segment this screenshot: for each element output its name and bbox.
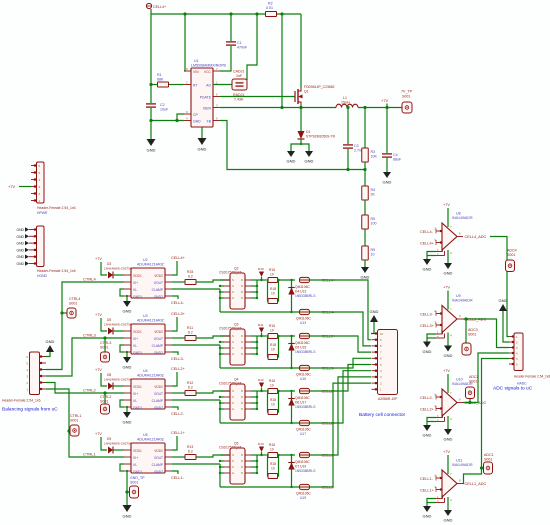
svg-text:VOUT: VOUT xyxy=(154,456,163,460)
wire CELL1- to battery connector xyxy=(310,383,372,487)
svg-text:VI-: VI- xyxy=(133,344,137,348)
svg-text:ADC1: ADC1 xyxy=(484,453,494,457)
svg-text:CELL1-: CELL1- xyxy=(171,476,185,480)
resistor R9 10 divider xyxy=(364,229,366,246)
svg-text:S001: S001 xyxy=(484,458,492,462)
svg-text:R18: R18 xyxy=(270,287,276,291)
svg-text:FB: FB xyxy=(207,120,212,124)
op-amp U4 ADUM4121ARIZ gate driver xyxy=(131,379,165,409)
wire CP-GND loop xyxy=(177,114,184,121)
U5 pin VI- xyxy=(124,463,131,465)
U10 output pin 6 xyxy=(457,402,463,404)
svg-text:10: 10 xyxy=(380,332,384,336)
Q2 right pin 5 xyxy=(245,297,251,299)
wire block right bus xyxy=(251,335,257,337)
svg-text:1N4148WS-C92756: 1N4148WS-C92756 xyxy=(104,267,132,271)
node CELL1+ flag at driver xyxy=(172,436,177,450)
svg-text:VDD2: VDD2 xyxy=(154,449,163,453)
op-amp U9 INA149AIDR difference amplifier xyxy=(442,306,457,333)
Q2 right pin 8 xyxy=(245,279,251,281)
connector HCTRL Header-Female 2.54_1x6 balancing input xyxy=(30,352,40,395)
U1 pin PGATE xyxy=(213,96,220,98)
svg-text:2K: 2K xyxy=(371,193,376,197)
U4 pin VI+ xyxy=(124,392,131,394)
svg-text:S: S xyxy=(232,278,234,282)
capacitor C2 10uF input cap xyxy=(146,103,156,105)
resistor R15 6.2 gate resistor xyxy=(172,281,185,283)
resistor R1 68K to RT pin xyxy=(151,84,157,86)
connector 7V TP test point xyxy=(402,102,412,113)
svg-text:L1: L1 xyxy=(343,96,347,100)
wire GND2 to cell- flag xyxy=(172,407,178,410)
svg-text:+7V: +7V xyxy=(95,313,102,317)
U5 pin VDD2 xyxy=(165,449,172,451)
svg-text:GND: GND xyxy=(383,180,392,185)
node switch node junction xyxy=(300,105,302,108)
Q3 left pin 1 xyxy=(224,335,230,337)
junction dots on VIN rail xyxy=(183,12,186,15)
capacitor C3 2.7nF xyxy=(347,108,349,145)
fuse U12 cell+ line xyxy=(300,277,310,282)
svg-text:QM1106C: QM1106C xyxy=(295,341,310,345)
Q4 left pin 1 xyxy=(224,390,230,392)
resistor R3 10K xyxy=(364,108,366,149)
wire top VIN rail xyxy=(151,13,266,15)
svg-text:C4: C4 xyxy=(393,153,398,157)
Q3 right pin 7 xyxy=(245,341,251,343)
svg-text:C2: C2 xyxy=(160,103,165,107)
ground D1 right xyxy=(305,151,313,157)
U3 pin VDD2 xyxy=(165,330,172,332)
svg-text:R4: R4 xyxy=(371,188,376,192)
svg-text:CELL4+: CELL4+ xyxy=(420,242,435,246)
svg-text:VCC: VCC xyxy=(204,70,212,74)
U11 input pin 2 CELL1- xyxy=(436,477,442,479)
wire cell+ line from bus xyxy=(257,390,266,392)
svg-text:GND_TP: GND_TP xyxy=(130,476,145,480)
ground HGND pin 4 xyxy=(25,241,29,245)
svg-text:CLAMP: CLAMP xyxy=(152,463,164,467)
wire ISEN to switch node xyxy=(220,107,301,109)
svg-text:A2086R-10P: A2086R-10P xyxy=(378,397,398,401)
svg-text:CELL2-: CELL2- xyxy=(171,412,185,416)
svg-text:R2: R2 xyxy=(268,2,273,6)
svg-text:D: D xyxy=(241,346,243,350)
svg-text:10K: 10K xyxy=(371,155,378,159)
svg-text:GND: GND xyxy=(123,514,132,519)
Q2 left pin 3 xyxy=(224,291,230,293)
svg-text:10: 10 xyxy=(270,384,274,388)
U8 input pin 2 CELL4- xyxy=(436,230,442,232)
Q5 right pin 7 xyxy=(245,460,251,462)
svg-text:S001: S001 xyxy=(469,380,477,384)
diode D5 1N4148WS xyxy=(108,328,113,335)
ground under driver U3 xyxy=(126,352,128,357)
svg-text:S001: S001 xyxy=(100,400,108,404)
U2 pin VDD1 xyxy=(124,274,131,276)
Q4 left pin 4 xyxy=(224,408,230,410)
wire VIN drop to C2/R1 column xyxy=(150,14,152,103)
wire GND2 to cell- flag xyxy=(172,296,178,299)
connector HGND Header-Female 2.54_1x6 xyxy=(37,226,45,267)
svg-text:G: G xyxy=(232,471,234,475)
U1 pin AO xyxy=(213,84,220,86)
op-amp U11 INA149AIDR difference amplifier xyxy=(442,470,457,497)
connector A2086R-10P battery cell connector xyxy=(378,330,398,395)
U11 reference pins 1 5 loop xyxy=(436,498,443,500)
wire VOUT to block xyxy=(196,280,230,282)
svg-text:6.2: 6.2 xyxy=(188,331,193,335)
svg-text:10: 10 xyxy=(271,467,275,471)
U4 pin VOUT xyxy=(165,392,172,394)
svg-text:S001: S001 xyxy=(69,302,77,306)
wire +7V output rail xyxy=(358,107,403,109)
connector HADC Header-Female 2.54_1x6 ADC output xyxy=(514,333,523,371)
svg-text:1nF: 1nF xyxy=(236,74,243,78)
diode D12 small gate diode xyxy=(261,388,263,391)
svg-text:GND1: GND1 xyxy=(133,295,142,299)
svg-text:ADC3: ADC3 xyxy=(468,328,478,332)
wire cell+ line from bus xyxy=(257,279,266,281)
Q3 right pin 8 xyxy=(245,335,251,337)
wire CTRL4 route from header xyxy=(46,282,124,370)
svg-text:HADC: HADC xyxy=(517,382,527,386)
svg-text:GND2: GND2 xyxy=(154,470,163,474)
resistor R16 10 series xyxy=(268,389,278,394)
svg-text:GND: GND xyxy=(423,514,432,519)
svg-text:CELL3-: CELL3- xyxy=(420,313,434,317)
Q2 left pin 1 xyxy=(224,279,230,281)
svg-text:QM1106C: QM1106C xyxy=(295,460,310,464)
svg-text:CELL1-: CELL1- xyxy=(420,477,434,481)
svg-text:10: 10 xyxy=(270,273,274,277)
ground reference pins xyxy=(423,506,431,512)
U3 pin VDD1 xyxy=(124,330,131,332)
svg-text:R11: R11 xyxy=(187,326,193,330)
svg-text:15uH: 15uH xyxy=(341,101,350,105)
U8 output pin 6 xyxy=(457,236,463,238)
svg-text:GND: GND xyxy=(423,267,432,272)
U1 pin ISEN xyxy=(213,107,220,109)
svg-text:D: D xyxy=(241,290,243,294)
U10 input pin 3 CELL2+ xyxy=(436,408,442,410)
svg-text:10uF: 10uF xyxy=(160,108,169,112)
svg-text:+7V: +7V xyxy=(443,369,450,373)
svg-text:CP: CP xyxy=(193,113,198,117)
svg-text:AO: AO xyxy=(206,84,211,88)
svg-text:Balancing signals from uC: Balancing signals from uC xyxy=(2,407,58,413)
Q2 right pin 7 xyxy=(245,285,251,287)
resistor R13 6.2 gate resistor xyxy=(172,456,185,458)
svg-text:HGND: HGND xyxy=(37,274,48,278)
op-amp U10 INA149AIDR difference amplifier xyxy=(442,389,457,416)
svg-text:GND: GND xyxy=(16,248,24,252)
fuse U17 cell- line xyxy=(220,422,300,424)
op-amp U5 ADUM4121ARIZ gate driver xyxy=(131,443,165,473)
svg-text:GND: GND xyxy=(16,255,24,259)
inductor L1 15uH xyxy=(336,104,358,107)
Q3 left pin 3 xyxy=(224,347,230,349)
wire clamp bus left of block xyxy=(219,400,221,423)
svg-text:QM1106C: QM1106C xyxy=(296,428,311,432)
wire FB feedback line xyxy=(220,121,365,170)
node CELL2+ flag at driver xyxy=(172,372,177,386)
svg-text:CTRL3: CTRL3 xyxy=(100,341,111,345)
svg-text:1N4148WS-C92756: 1N4148WS-C92756 xyxy=(104,442,132,446)
svg-text:D9: D9 xyxy=(107,437,111,441)
svg-text:Header-Female 2.54_1x6: Header-Female 2.54_1x6 xyxy=(514,375,550,379)
Q5 left pin 1 xyxy=(224,454,230,456)
svg-text:D: D xyxy=(241,407,243,411)
svg-text:100: 100 xyxy=(371,222,377,226)
svg-text:D: D xyxy=(241,334,243,338)
ground reference pins xyxy=(423,425,431,431)
svg-text:U13: U13 xyxy=(300,321,306,325)
svg-text:U3: U3 xyxy=(143,314,148,318)
svg-text:R18: R18 xyxy=(270,343,276,347)
svg-text:ADUM4121ARIZ: ADUM4121ARIZ xyxy=(137,374,165,378)
Q3 right pin 5 xyxy=(245,353,251,355)
svg-text:10: 10 xyxy=(271,292,275,296)
svg-text:CSD17575Q3A: CSD17575Q3A xyxy=(219,327,243,331)
svg-text:GND: GND xyxy=(193,120,201,124)
capacitor C1 470nF VCC cap xyxy=(230,14,232,41)
transistor Q5 CSD17575Q3A dual MOSFET block xyxy=(230,448,245,484)
svg-text:7.43K: 7.43K xyxy=(234,98,244,102)
wire CELL3+ to battery connector xyxy=(310,336,372,352)
svg-text:ADC4: ADC4 xyxy=(507,249,517,253)
svg-text:S001: S001 xyxy=(130,481,138,485)
Q2 left pin 2 xyxy=(224,285,230,287)
wire CLAMP to block bus xyxy=(172,288,220,290)
svg-text:D6 U17: D6 U17 xyxy=(295,401,306,405)
op-amp U3 ADUM4121ARIZ gate driver xyxy=(131,324,165,354)
svg-text:INA149AIDR: INA149AIDR xyxy=(452,463,473,467)
svg-text:D: D xyxy=(241,284,243,288)
wire CELL1+ to battery connector xyxy=(310,377,372,455)
node CELL4+ power input port xyxy=(146,3,151,8)
svg-text:+7V: +7V xyxy=(443,450,450,454)
svg-text:CTRL2: CTRL2 xyxy=(100,395,111,399)
svg-text:VI+: VI+ xyxy=(133,337,138,341)
connector ADC4 test point xyxy=(506,265,507,267)
svg-text:FDD5614P_C23682: FDD5614P_C23682 xyxy=(304,85,335,89)
svg-text:S: S xyxy=(232,334,234,338)
wire CTRL3 route from header xyxy=(46,338,124,376)
wire CLAMP to block bus xyxy=(172,399,220,401)
svg-text:U19: U19 xyxy=(300,496,306,500)
Q5 right pin 6 xyxy=(245,466,251,468)
U8 input pin 3 CELL4+ xyxy=(436,242,442,244)
wire block right bus xyxy=(251,390,257,392)
Q5 right pin 8 xyxy=(245,454,251,456)
U10 input pin 2 CELL2- xyxy=(436,396,442,398)
U5 pin VDD1 xyxy=(124,449,131,451)
Q3 left pin 4 xyxy=(224,353,230,355)
svg-text:VOUT: VOUT xyxy=(154,281,163,285)
fuse U19 cell- line xyxy=(220,486,300,488)
svg-text:R5: R5 xyxy=(371,217,376,221)
svg-text:ISEN: ISEN xyxy=(203,107,211,111)
svg-text:CELL1_ADC: CELL1_ADC xyxy=(465,482,487,486)
svg-text:1N4148WS-C92756: 1N4148WS-C92756 xyxy=(104,323,132,327)
wire VOUT to block xyxy=(196,336,230,338)
svg-text:CELL4+: CELL4+ xyxy=(171,256,186,260)
svg-text:S: S xyxy=(232,340,234,344)
svg-text:CELL3-: CELL3- xyxy=(171,357,185,361)
svg-text:CTRL1: CTRL1 xyxy=(83,452,96,457)
U2 pin VI+ xyxy=(124,281,131,283)
svg-text:D12: D12 xyxy=(258,378,264,382)
svg-text:D: D xyxy=(241,453,243,457)
node CELL4+ flag at driver xyxy=(172,261,177,275)
svg-text:+7V: +7V xyxy=(443,203,450,207)
svg-text:VIN: VIN xyxy=(193,70,199,74)
wire CTRL2 route from header xyxy=(46,383,124,394)
resistor R18 10 parallel loop xyxy=(267,280,270,301)
svg-text:D5 U15: D5 U15 xyxy=(295,346,306,350)
wire clamp bus left of block xyxy=(219,464,221,487)
svg-text:D5: D5 xyxy=(107,318,111,322)
transistor Q1 FDD5614P PMOS xyxy=(294,91,296,102)
ground below divider chain xyxy=(364,260,366,267)
U5 pin GND1 xyxy=(124,470,131,472)
U3 pin GND2 xyxy=(165,351,172,353)
wire to zener and fuse xyxy=(279,390,296,392)
U1 pin FB xyxy=(213,120,220,122)
svg-text:10: 10 xyxy=(271,348,275,352)
svg-text:CELL1+: CELL1+ xyxy=(171,431,186,435)
svg-text:C3: C3 xyxy=(354,144,359,148)
wire rail branch to CADJ network xyxy=(247,14,257,80)
diode zener 1N5338BRLG xyxy=(291,391,293,423)
wire PGATE to Q1 gate xyxy=(220,96,295,98)
svg-text:U5: U5 xyxy=(143,433,148,437)
svg-text:D: D xyxy=(241,296,243,300)
op-amp U1 LM5008 regulator IC body xyxy=(191,68,213,127)
wire VI- GND1 loop xyxy=(120,400,124,407)
svg-text:STPS2M1050S-TR: STPS2M1050S-TR xyxy=(306,135,336,139)
connector ADC2 test point xyxy=(469,399,471,403)
ground below C2 xyxy=(147,139,156,146)
U3 pin GND1 xyxy=(124,351,131,353)
U10 reference pins 1 5 loop xyxy=(436,417,443,419)
svg-text:D: D xyxy=(241,465,243,469)
resistor R18 10 parallel loop xyxy=(267,336,270,357)
svg-text:GND: GND xyxy=(123,420,132,425)
U2 pin CLAMP xyxy=(165,288,172,290)
Q5 left pin 4 xyxy=(224,472,230,474)
svg-text:D: D xyxy=(241,401,243,405)
svg-text:GND: GND xyxy=(444,271,453,276)
svg-text:GND: GND xyxy=(444,353,453,358)
U8 pin 4 negative supply xyxy=(447,250,449,263)
svg-text:6.2: 6.2 xyxy=(188,386,193,390)
U1 pin RT xyxy=(184,84,191,86)
wire CELL4_ADC to HADC pin1 xyxy=(490,237,509,337)
svg-text:Header-Female 2.54_1x6: Header-Female 2.54_1x6 xyxy=(37,269,76,273)
ground HGND pin 3 xyxy=(25,248,29,252)
wire CELL2+ to battery connector xyxy=(310,365,372,392)
svg-text:R12: R12 xyxy=(187,381,193,385)
svg-text:GND2: GND2 xyxy=(154,295,163,299)
wire VI- GND1 loop xyxy=(120,289,124,296)
svg-text:VI+: VI+ xyxy=(133,392,138,396)
svg-text:GND: GND xyxy=(16,242,24,246)
svg-text:VDD1: VDD1 xyxy=(133,274,142,278)
svg-text:VDD2: VDD2 xyxy=(154,330,163,334)
connector ADC1 test point xyxy=(482,467,485,469)
wire to zener and fuse xyxy=(279,335,296,337)
svg-text:CSD17575Q3A: CSD17575Q3A xyxy=(219,446,243,450)
svg-text:S001: S001 xyxy=(100,346,108,350)
resistor R16 10 series xyxy=(268,278,278,283)
svg-text:D1: D1 xyxy=(306,130,310,134)
svg-text:68uF: 68uF xyxy=(393,158,402,162)
wire D1 anode split to grounds xyxy=(291,139,301,151)
svg-text:VDD2: VDD2 xyxy=(154,274,163,278)
wire cell+ line from bus xyxy=(257,335,266,337)
svg-text:GND: GND xyxy=(16,228,24,232)
Q2 left pin 4 xyxy=(224,297,230,299)
svg-text:GND: GND xyxy=(423,349,432,354)
U4 pin CLAMP xyxy=(165,399,172,401)
svg-text:GND: GND xyxy=(123,309,132,314)
svg-text:S: S xyxy=(232,284,234,288)
Q4 right pin 5 xyxy=(245,408,251,410)
svg-text:1N5338BRLG: 1N5338BRLG xyxy=(295,350,316,354)
resistor R18 10 parallel loop xyxy=(267,455,270,476)
svg-text:R16: R16 xyxy=(269,443,275,447)
Q3 left pin 2 xyxy=(224,341,230,343)
svg-text:VI-: VI- xyxy=(133,463,137,467)
svg-text:1N5338BRLG: 1N5338BRLG xyxy=(295,469,316,473)
svg-text:0.01: 0.01 xyxy=(266,6,273,10)
wire VI- GND1 loop xyxy=(120,345,124,352)
wire block right bus xyxy=(251,454,257,456)
svg-text:S: S xyxy=(232,401,234,405)
svg-text:CSD17575Q3A: CSD17575Q3A xyxy=(219,271,243,275)
diode D9 1N4148WS xyxy=(108,447,113,454)
svg-text:CELL2-: CELL2- xyxy=(420,396,434,400)
Q2 right pin 6 xyxy=(245,291,251,293)
svg-text:GND: GND xyxy=(361,275,370,280)
svg-text:68K: 68K xyxy=(157,78,164,82)
svg-text:GND: GND xyxy=(305,159,314,164)
svg-text:D: D xyxy=(241,459,243,463)
U5 pin VOUT xyxy=(165,456,172,458)
svg-text:C1: C1 xyxy=(237,41,242,45)
node CELL3+ flag at driver xyxy=(172,317,177,331)
ground opamp pin4 xyxy=(444,429,452,435)
svg-text:R16: R16 xyxy=(269,268,275,272)
svg-text:QM1106C: QM1106C xyxy=(295,396,310,400)
svg-text:ADC2: ADC2 xyxy=(469,375,479,379)
resistor R11 6.2 gate resistor xyxy=(172,337,185,339)
svg-text:6.2: 6.2 xyxy=(188,275,193,279)
svg-text:CELL3+: CELL3+ xyxy=(420,324,435,328)
svg-text:ADUM4121ARIZ: ADUM4121ARIZ xyxy=(137,438,165,442)
svg-text:GND: GND xyxy=(198,147,207,152)
svg-text:10: 10 xyxy=(270,329,274,333)
U4 pin VDD1 xyxy=(124,385,131,387)
svg-text:D: D xyxy=(241,340,243,344)
svg-text:U10: U10 xyxy=(456,378,463,382)
connector HPWR Header-Female 2.54_1x6 xyxy=(37,162,45,203)
svg-text:S: S xyxy=(232,453,234,457)
Q4 right pin 8 xyxy=(245,390,251,392)
svg-text:PGATE: PGATE xyxy=(200,96,212,100)
